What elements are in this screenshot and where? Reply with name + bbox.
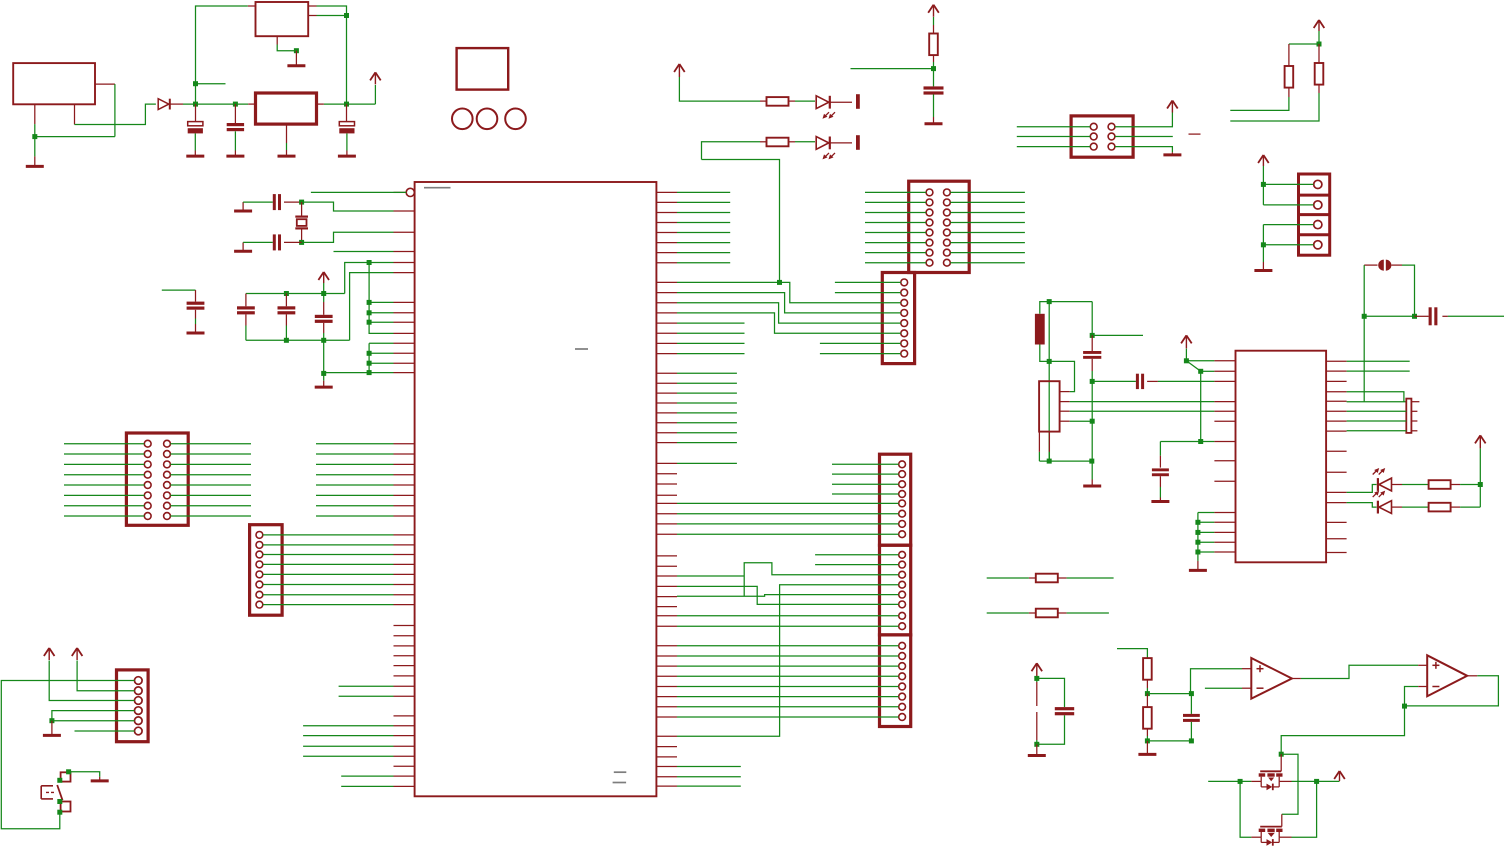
wire GND to ground	[34, 137, 36, 157]
diode D1	[158, 99, 170, 110]
wire U1 to SV6c 3	[677, 665, 899, 667]
junction C14 bottom	[1189, 738, 1194, 743]
wire U2 lrow 532.4	[1198, 531, 1215, 533]
wire C1 bottom	[194, 133, 196, 150]
wire gate jog	[1281, 754, 1298, 814]
pin U2 left 12	[1214, 531, 1235, 533]
pin circle SV1 R6	[164, 492, 171, 499]
junction VCC col 322.2	[367, 320, 372, 325]
wire U1 bus A1	[677, 382, 737, 384]
transistor Q3 leads	[1261, 777, 1279, 782]
pin U1 left 44	[394, 775, 415, 777]
resistor R7	[767, 138, 789, 147]
wire cap bank top rail	[246, 293, 345, 295]
pin U1 right 13	[656, 322, 677, 324]
wire U2 xtal a	[1347, 410, 1407, 412]
pin U2 left 13	[1214, 541, 1235, 543]
lead C3 top	[346, 104, 348, 122]
junction C8 top	[1090, 333, 1095, 338]
supply arrow SV7	[1167, 101, 1178, 113]
pin U2 left 14	[1214, 551, 1235, 553]
junction AVCC	[367, 260, 372, 265]
wire SV4 right 4	[950, 222, 1025, 224]
header SV7 2x3	[1071, 116, 1133, 157]
wire LED vcc col	[1479, 448, 1481, 507]
ground under X1	[26, 156, 44, 166]
pin U1 right 27	[656, 483, 677, 485]
wire SV5 row2 stub	[835, 292, 901, 294]
pin U1 right 16	[656, 353, 677, 355]
wire SV5 row1 stub	[835, 281, 901, 283]
pin U1 left 31	[394, 635, 415, 637]
wire U2 lrow 552.0	[1198, 551, 1215, 553]
junction out left	[1238, 779, 1243, 784]
wire U1 stub 776.8	[677, 776, 741, 778]
lead R16 bottom	[1146, 729, 1148, 736]
resistor R11	[1036, 574, 1058, 583]
contact pad TP1	[856, 94, 860, 109]
lead R6 right	[788, 100, 795, 102]
wire gnd to CX1	[243, 201, 273, 203]
pin U2 left 6	[1214, 420, 1235, 422]
supply arrow X4	[1258, 155, 1269, 166]
gray mark U1 bottom2	[613, 782, 627, 784]
wire XTAL1 row	[1347, 401, 1407, 403]
gray mark U1 center	[575, 348, 588, 350]
wire series cap left	[1092, 380, 1136, 382]
pin U2 right 7	[1326, 420, 1347, 422]
pin circle SV1 L8	[144, 513, 151, 520]
pin U1 left 36	[394, 685, 415, 687]
pin circle SV1 L6	[144, 492, 151, 499]
wire X1 pin2 to diode	[75, 104, 156, 124]
pin U1 right 9	[656, 281, 677, 283]
LED D2	[816, 96, 835, 119]
junction VUSB mid	[1047, 359, 1052, 364]
pin circle SV4 L8	[926, 259, 933, 266]
supply arrow ref	[1032, 663, 1043, 676]
stub Q2 pin1	[1411, 401, 1419, 403]
wire U2 pin2	[1201, 370, 1215, 372]
lead R11 right	[1058, 577, 1067, 579]
wire SV6a stub 3	[832, 483, 899, 485]
pin circle SV5-5	[901, 320, 908, 327]
capacitor C1 electrolytic	[188, 122, 203, 134]
lead C9 bottom	[323, 323, 325, 333]
pin X2 left	[248, 5, 256, 7]
wire U1 bus A0	[677, 372, 737, 374]
wire U1 bus A4	[677, 412, 737, 414]
wire R12 left	[987, 612, 1029, 614]
resonator Q2 body	[1406, 399, 1411, 433]
voltage regulator IC2	[256, 93, 317, 124]
ground divider	[1138, 741, 1156, 755]
pin U1 left 43	[394, 765, 415, 767]
junction C11 net	[1198, 439, 1203, 444]
pin circle SV7 R3	[1108, 143, 1115, 150]
pin circle SV4 L5	[926, 229, 933, 236]
wire SV2 row 4	[263, 563, 394, 565]
pin circle SV4 L2	[926, 199, 933, 206]
pin U1 right 42	[656, 655, 677, 657]
mounting hole H3	[505, 109, 526, 130]
op-amp U3A	[1251, 658, 1292, 699]
pin U1 right 20	[656, 402, 677, 404]
pin circle SV4 L7	[926, 249, 933, 256]
connector X1 DC power jack	[13, 63, 95, 104]
header SV2 1x8	[250, 525, 283, 616]
wire VCC col pin 302.4	[369, 301, 393, 303]
pin X1 GND1	[34, 104, 36, 124]
junction GND col bottom	[367, 370, 372, 375]
pin U1 right 6	[656, 242, 677, 244]
lead D5 right	[1392, 506, 1403, 508]
pin U1 right 34	[656, 565, 677, 567]
pin U2 left 2	[1214, 370, 1235, 372]
lead Q4 gate	[1281, 814, 1283, 826]
pin circle SV3-4	[135, 707, 143, 715]
resistor R16	[1143, 707, 1152, 729]
pin U1 right 43	[656, 665, 677, 667]
junction rail B	[233, 102, 238, 107]
pin U1 right 49	[656, 735, 677, 737]
wire C5 bottom	[933, 94, 935, 117]
pin U1 left 34	[394, 665, 415, 667]
pin U1 right 19	[656, 392, 677, 394]
terminal block X4	[1299, 174, 1330, 255]
pin U1 left 37	[394, 695, 415, 697]
wire xover 3	[677, 303, 901, 323]
pin U1 left 4	[394, 262, 415, 264]
wire SV2 row 2	[263, 544, 394, 546]
pin circle SV1 L2	[144, 451, 151, 458]
capacitor C8	[1083, 351, 1101, 359]
lead R5 top	[933, 25, 935, 34]
wire C11 drop	[1159, 442, 1161, 456]
lead crystal top	[301, 202, 303, 215]
lead X5 shield1	[1038, 432, 1040, 452]
pin U1 left 13	[394, 372, 415, 374]
pin circle SV5-6	[901, 330, 908, 337]
pin U1 right 40	[656, 625, 677, 627]
transistor Q3 gate bar	[1260, 770, 1281, 772]
pin U2 left 10	[1214, 512, 1235, 514]
wire xover 4	[677, 313, 901, 333]
capacitor C3 electrolytic	[339, 122, 354, 134]
pin U1 left 30	[394, 625, 415, 627]
wire top link	[1289, 43, 1319, 45]
pin U1 left 14	[394, 443, 415, 445]
wire L1 bottom	[1040, 345, 1075, 392]
lead C10 right	[1147, 380, 1158, 382]
pin circle SV6a-1	[899, 461, 906, 468]
header SV3 1x6	[117, 670, 149, 742]
wire R13 to col	[1460, 484, 1480, 486]
junction rail A	[193, 102, 198, 107]
wire shield2	[1048, 452, 1050, 461]
wire X2 pin2	[317, 15, 347, 17]
header SV6 part3	[880, 635, 911, 727]
pin circle SV6c-8	[899, 714, 906, 721]
pin circle SV6b-1	[899, 551, 906, 558]
LED D3	[816, 137, 835, 160]
transistor Q4 body diode	[1261, 837, 1279, 846]
wire bridge right col	[1292, 781, 1317, 837]
pin U1 left 35	[394, 675, 415, 677]
resistor R13	[1429, 480, 1451, 489]
junction X2 gnd	[294, 48, 299, 53]
pin U1 left 27	[394, 584, 415, 586]
wire rail segment A	[183, 103, 248, 105]
pin circle SV1 L3	[144, 461, 151, 468]
wire SV4 right 3	[950, 212, 1025, 214]
resistor R9	[1315, 63, 1324, 85]
wire C7 to rail	[285, 326, 287, 341]
wire gnd to CX2	[243, 241, 273, 243]
wire U1 port C 2	[316, 453, 394, 455]
wire XTAL1 to pin	[302, 202, 394, 211]
terminal divider 3	[1299, 233, 1330, 236]
pin U2 right 12	[1326, 502, 1347, 504]
pin U1 left 6	[394, 301, 415, 303]
capacitor C2	[227, 123, 244, 131]
wire gnd row	[323, 373, 325, 381]
wire U1 port C 3	[316, 463, 394, 465]
wire R15 out	[1146, 688, 1148, 694]
pin X2 gnd	[276, 36, 278, 44]
wire stub net	[1092, 334, 1143, 336]
pin U1 right 15	[656, 342, 677, 344]
lead C8 top	[1091, 335, 1093, 351]
supply arrow SV3 b	[44, 648, 55, 660]
wire gnd col	[1091, 381, 1093, 479]
wire VUSB column	[1048, 302, 1050, 462]
wire VCC col pin 312.8	[369, 312, 393, 314]
pin X5 GND	[1060, 420, 1070, 422]
wire U1 port C 6	[316, 494, 394, 496]
ground USB	[1083, 480, 1101, 487]
pin U1 left 20	[394, 505, 415, 507]
wire X2 top to vertical	[317, 6, 347, 104]
pin U1 right 28	[656, 494, 677, 496]
pin U1 left 23	[394, 544, 415, 546]
pin circle SV1 L5	[144, 482, 151, 489]
pin circle SV1 L1	[144, 440, 151, 447]
pin header JP1 b	[1036, 712, 1038, 740]
supply arrow above R5	[928, 5, 939, 17]
wire U2 col	[1200, 371, 1202, 441]
pin U2 right 5	[1326, 400, 1347, 402]
wire ref to C13	[1037, 678, 1065, 707]
lead C4 top	[195, 290, 197, 302]
wire SV1 right 4	[170, 474, 251, 476]
wire to C8 column	[1091, 302, 1093, 336]
wire U2 lrow 542.2	[1198, 541, 1215, 543]
wire U1 left 686	[339, 685, 394, 687]
junction U2 pin2	[1198, 369, 1203, 374]
junction Y1 left	[1362, 314, 1367, 319]
pin U1 right 17	[656, 372, 677, 374]
pin U1 right 22	[656, 422, 677, 424]
wire X2 gnd	[277, 45, 296, 51]
pin U1 left 1	[394, 210, 415, 212]
pin circle SV3-3	[135, 697, 143, 705]
wire AGND riser	[350, 273, 394, 341]
pin circle SV5-2	[901, 289, 908, 296]
junction reset node	[931, 66, 936, 71]
pin circle SV2-4	[256, 561, 263, 568]
ground X4	[1254, 262, 1272, 271]
pin circle SV2-7	[256, 591, 263, 598]
wire SV1 left 8	[64, 515, 144, 517]
wire R14 to col	[1460, 506, 1480, 508]
junction left loop	[193, 81, 198, 86]
pin circle SV4 L1	[926, 189, 933, 196]
pin circle SV4 L4	[926, 219, 933, 226]
pin U1 left 15	[394, 453, 415, 455]
wire SV4 right 5	[950, 232, 1025, 234]
wire S1 to gnd	[69, 772, 100, 777]
wire U1 to SV6a 7	[677, 523, 899, 525]
lead R16 top	[1146, 694, 1148, 708]
pin U1 left 40	[394, 735, 415, 737]
junction S1 bottom a	[57, 799, 62, 804]
wire C12 to edge	[1448, 315, 1504, 317]
pin circle SV2-3	[256, 551, 263, 558]
pin circle SV6c-1	[899, 642, 906, 649]
wire U1 port B 3	[677, 212, 730, 214]
ground C11	[1151, 498, 1169, 502]
pin U2 left 1	[1214, 360, 1235, 362]
wire U1 port B 7	[677, 252, 730, 254]
pin U1 right 5	[656, 232, 677, 234]
junction GND col 353.3	[367, 351, 372, 356]
wire R6 to D2	[795, 100, 815, 102]
pin circle SV6c-6	[899, 693, 906, 700]
lead opamp2 out	[1467, 675, 1477, 677]
wire VIN down	[114, 84, 116, 137]
junction divider	[1145, 691, 1150, 696]
switch S1 contact bottom	[61, 802, 71, 812]
pin U1 right 35	[656, 575, 677, 577]
contact pad TP2	[856, 135, 860, 150]
pin U1 right 1	[656, 191, 677, 193]
pin U1 left 19	[394, 494, 415, 496]
pin circle SV7 L1	[1090, 123, 1097, 130]
wire X5 GND net	[1070, 420, 1092, 422]
wire R16 out	[1146, 736, 1148, 741]
junction L1 net	[1047, 299, 1052, 304]
pin circle SV6a-8	[899, 531, 906, 538]
resonator Y1	[1378, 260, 1391, 271]
capacitor C6	[237, 306, 255, 314]
wire U1 stub 333.3	[677, 332, 745, 334]
pin X2 out2	[308, 15, 316, 17]
pin U2 left 7	[1214, 441, 1235, 443]
pin U1 right 47	[656, 706, 677, 708]
wire C4 net	[162, 289, 196, 291]
wire GND row to pin	[324, 372, 394, 374]
wire SV1 right 7	[170, 505, 251, 507]
wire D4 to R13	[1402, 484, 1428, 486]
LED D5	[1373, 491, 1392, 514]
pin circle SV6b-5	[899, 591, 906, 598]
junction SV3 gnd	[49, 718, 54, 723]
pin header JP1 a	[1036, 682, 1038, 706]
junction rail C6	[284, 291, 289, 296]
wire SV4 right 8	[950, 262, 1025, 264]
wire SV3 row4	[52, 711, 135, 721]
pin X5 VBUS	[1060, 410, 1070, 412]
wire U1 port C 5	[316, 484, 394, 486]
microcontroller U1	[415, 182, 657, 796]
capacitor C10	[1136, 374, 1144, 389]
lead C12 left	[1415, 315, 1429, 317]
pin U1 right 45	[656, 686, 677, 688]
pin U1 left 18	[394, 484, 415, 486]
wire X4 to gnd	[1262, 245, 1264, 262]
pin U1 left 42	[394, 755, 415, 757]
wire U1 stub 323.1	[677, 322, 745, 324]
pin circle SV5-1	[901, 279, 908, 286]
lead R5 bottom	[933, 55, 935, 62]
wire SV2 row 6	[263, 584, 394, 586]
wire SV2 row 5	[263, 573, 394, 575]
lead R8 top	[1288, 44, 1290, 66]
wire SV6a stub 2	[832, 473, 899, 475]
capacitor C13	[1055, 707, 1074, 715]
wire SV5 row8 stub	[820, 353, 901, 355]
capacitor C5	[924, 86, 944, 94]
supply arrow R8 R9	[1314, 20, 1325, 31]
pin circle SV2-5	[256, 571, 263, 578]
ground crystal cap1	[234, 202, 252, 211]
wire R11 left	[987, 577, 1029, 579]
gray mark U1 bottom1	[614, 771, 627, 773]
junction out right	[1314, 779, 1319, 784]
wire U1 left 746	[303, 745, 393, 747]
lead Q3 D	[1279, 780, 1291, 782]
junction gnd row	[321, 371, 326, 376]
wire U1 to SV6a 8	[677, 533, 899, 535]
pin circle SV5-7	[901, 340, 908, 347]
lead C8 bottom	[1091, 359, 1093, 371]
transistor Q3 body diode	[1261, 781, 1279, 790]
lead CX1 right	[284, 201, 302, 203]
wire SV4 left 1	[865, 191, 926, 193]
transistor Q4 channel	[1259, 829, 1283, 837]
ground under IC2	[278, 150, 296, 156]
wire SV1 right 5	[170, 484, 251, 486]
wire SV3 row5	[52, 720, 135, 722]
ground cap bank	[315, 381, 333, 387]
pin U2 right 9	[1326, 450, 1347, 452]
wire opamp2 minus	[1405, 687, 1419, 707]
pin circle SV1 R5	[164, 482, 171, 489]
pin U1 right 44	[656, 675, 677, 677]
pin U2 left 9	[1214, 480, 1235, 482]
pin U1 right 21	[656, 412, 677, 414]
pin circle SV3-1	[135, 677, 143, 685]
capacitor C11	[1152, 468, 1169, 476]
pin U1 left 11	[394, 352, 415, 354]
wire U1 to SV6a 5	[677, 502, 899, 504]
capacitor C12	[1429, 307, 1438, 325]
wire U1 to SV6c 7	[677, 706, 899, 708]
wire opamp1 minus stub	[1205, 687, 1242, 689]
terminal circle X4-1	[1314, 180, 1322, 188]
junction LED col	[1478, 482, 1483, 487]
